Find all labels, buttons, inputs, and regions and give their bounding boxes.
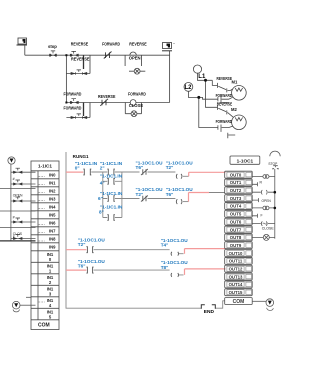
svg-text:IN3: IN3 [49,196,56,201]
svg-text:REVERSE: REVERSE [71,41,89,46]
svg-text:T6": T6" [166,192,174,197]
svg-text:OUT0: OUT0 [230,172,242,177]
svg-text:F: F [261,213,263,217]
svg-text:IN9: IN9 [49,244,56,249]
svg-text:T6": T6" [136,165,144,170]
svg-text:CLOSE: CLOSE [129,103,144,108]
svg-text:OUT5: OUT5 [230,212,242,217]
svg-text:0": 0" [75,166,80,171]
svg-text:OUT4: OUT4 [230,204,242,209]
svg-text:6": 6" [98,196,103,201]
svg-text:OPEN: OPEN [129,55,141,60]
svg-text:2": 2" [100,166,105,171]
svg-text:T4": T4" [161,243,169,248]
svg-text:IN0: IN0 [49,172,56,177]
svg-text:1-1IC1: 1-1IC1 [38,164,53,169]
svg-text:#: # [13,177,15,181]
svg-text:STOP: STOP [268,162,278,166]
svg-text:L1: L1 [198,74,206,80]
svg-text:IN5: IN5 [49,212,56,217]
svg-text:stop: stop [48,44,57,49]
svg-text:T2": T2" [166,165,174,170]
svg-text:IN7: IN7 [49,228,56,233]
svg-text:OUT10: OUT10 [229,251,243,256]
svg-text:"1-1IC1.IN: "1-1IC1.IN [100,191,123,196]
svg-text:FORWARD: FORWARD [128,92,146,97]
svg-text:FORWARD: FORWARD [216,119,233,124]
svg-text:OUT6: OUT6 [230,219,242,224]
svg-text:OUT11: OUT11 [229,259,243,264]
svg-text:OUT2: OUT2 [230,188,242,193]
svg-text:IN2: IN2 [49,188,56,193]
svg-text:OPEN: OPEN [13,194,23,198]
svg-text:OUT13: OUT13 [229,274,243,279]
svg-text:T6": T6" [78,264,86,269]
svg-text:OUT12: OUT12 [229,267,243,272]
svg-text:REVERSE: REVERSE [217,76,233,81]
svg-text:OPEN: OPEN [262,199,272,203]
svg-text:1-1OC1: 1-1OC1 [237,158,254,163]
svg-text:REVERSE: REVERSE [98,94,116,99]
svg-text:FORWARD: FORWARD [216,93,233,98]
svg-text:REVERSE: REVERSE [217,101,233,106]
svg-text:4": 4" [100,180,105,185]
svg-text:M2: M2 [231,107,237,112]
svg-text:RUNG1: RUNG1 [73,154,90,159]
svg-text:M1: M1 [232,80,238,85]
svg-text:IN1: IN1 [49,180,56,185]
svg-text:"1-1IC1.IN: "1-1IC1.IN [100,173,123,178]
svg-text:OUT3: OUT3 [230,196,242,201]
svg-text:8": 8" [99,210,104,215]
svg-text:T8": T8" [161,265,169,270]
svg-text:CLOSE: CLOSE [262,226,275,230]
svg-text:END: END [204,309,215,315]
svg-text:OUT1: OUT1 [230,180,242,185]
svg-text:OUT8: OUT8 [230,235,242,240]
svg-text:IN4: IN4 [49,204,56,209]
svg-text:REVERSE: REVERSE [129,41,147,46]
svg-text:OUT7: OUT7 [230,227,242,232]
svg-text:FORWARD: FORWARD [102,41,120,46]
svg-text:REVERSE: REVERSE [71,56,90,61]
svg-text:IN6: IN6 [49,220,56,225]
svg-text:IN8: IN8 [49,236,56,241]
svg-text:FORWARD: FORWARD [64,106,82,111]
svg-text:OUT9: OUT9 [230,243,242,248]
svg-text:#: # [13,216,15,220]
svg-text:COM: COM [233,299,245,305]
svg-text:OUT14: OUT14 [229,282,243,287]
svg-text:FORWARD: FORWARD [64,92,82,97]
svg-text:L2: L2 [185,85,193,91]
svg-text:OUT15: OUT15 [229,290,243,295]
svg-text:T2": T2" [78,242,86,247]
svg-text:T2": T2" [136,192,144,197]
svg-text:COM: COM [38,322,50,328]
